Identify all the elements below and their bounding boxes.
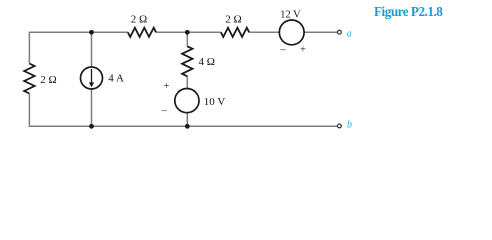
wire bottom rail <box>29 125 338 127</box>
resistor 4 ohm vertical <box>182 46 192 76</box>
svg-text:+: + <box>164 81 170 92</box>
current source 4A arrow <box>89 69 94 87</box>
current source 4A circle <box>81 67 103 89</box>
svg-text:4 A: 4 A <box>108 73 124 85</box>
wire middle branch lower <box>186 112 188 126</box>
svg-text:a: a <box>347 28 352 39</box>
terminal a open circle <box>338 30 342 34</box>
svg-text:10 V: 10 V <box>204 96 226 108</box>
svg-text:2 Ω: 2 Ω <box>131 13 147 25</box>
wire left vertical lower <box>28 94 30 128</box>
svg-text:12 V: 12 V <box>280 9 301 20</box>
junction dot bottom of middle branch <box>185 124 190 129</box>
wire 12V source to terminal a <box>304 31 337 33</box>
junction dot top of current source branch <box>89 30 94 35</box>
wire top rail middle segment <box>156 31 221 33</box>
svg-text:4 Ω: 4 Ω <box>199 56 215 68</box>
svg-text:+: + <box>300 45 306 56</box>
svg-text:2 Ω: 2 Ω <box>40 74 56 86</box>
resistor 2 ohm top first <box>128 28 156 37</box>
resistor 2 ohm left vertical <box>24 64 34 94</box>
wire current source branch lower <box>91 89 93 127</box>
wire middle branch between 4ohm and 10V <box>186 76 188 89</box>
voltage source 10V circle <box>175 89 199 113</box>
svg-text:–: – <box>161 106 168 117</box>
wire top rail right segment <box>249 31 279 33</box>
wire current source branch upper <box>91 32 93 67</box>
junction dot top of middle branch <box>185 30 190 35</box>
wire top rail left segment <box>29 31 127 33</box>
terminal b open circle <box>338 124 342 128</box>
svg-text:b: b <box>347 120 352 131</box>
junction dot bottom of current source branch <box>89 124 94 129</box>
svg-text:Figure P2.1.8: Figure P2.1.8 <box>374 4 443 19</box>
svg-text:–: – <box>279 44 286 55</box>
resistor 2 ohm top second <box>221 28 249 37</box>
voltage source 12V circle <box>279 20 304 45</box>
wire middle branch upper <box>186 32 188 46</box>
svg-text:2 Ω: 2 Ω <box>225 13 241 25</box>
wire left vertical upper <box>28 32 30 64</box>
